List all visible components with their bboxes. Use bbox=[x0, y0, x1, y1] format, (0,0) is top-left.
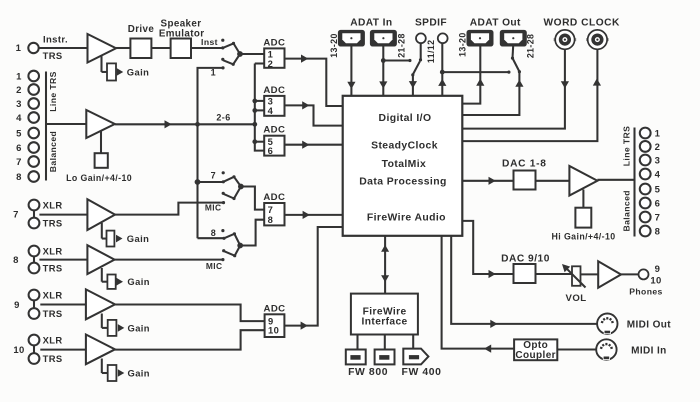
wire input 7 to amp bbox=[39, 214, 87, 216]
wire to FW400 port bbox=[412, 335, 414, 349]
input jacks XLR/TRS 8 bbox=[13, 245, 62, 273]
ADC 9/10 bbox=[264, 303, 286, 337]
gain pot 8 bbox=[102, 268, 150, 289]
svg-text:7: 7 bbox=[13, 210, 19, 221]
ADC 7/8 bbox=[263, 192, 285, 225]
svg-text:ADAT Out: ADAT Out bbox=[470, 18, 521, 29]
line TRS input jacks 1-8 bbox=[16, 71, 39, 183]
wire line-1 branch to bus bbox=[198, 68, 224, 124]
svg-text:Gain: Gain bbox=[127, 276, 149, 287]
wire SPDIF Out from DSP bbox=[438, 43, 446, 96]
pot VOL (volume fader) bbox=[562, 264, 586, 304]
svg-text:FW 800: FW 800 bbox=[348, 367, 388, 378]
svg-text:7: 7 bbox=[211, 170, 216, 180]
wire junction to switch 7 bbox=[198, 181, 224, 183]
ADC 3/4 bbox=[263, 85, 285, 116]
connector word clock BNC 1 bbox=[554, 30, 577, 49]
label 11/12 (SPDIF) bbox=[426, 40, 436, 64]
block Lo Gain reference bbox=[66, 131, 132, 183]
wire line inputs to amp bbox=[46, 123, 86, 125]
svg-text:5: 5 bbox=[16, 128, 22, 139]
svg-text:Data Processing: Data Processing bbox=[359, 177, 446, 188]
svg-text:21-28: 21-28 bbox=[526, 34, 536, 59]
svg-text:MIC: MIC bbox=[206, 261, 223, 271]
label DAC 1-8 bbox=[502, 159, 547, 170]
svg-text:7: 7 bbox=[655, 212, 661, 223]
svg-text:ADC: ADC bbox=[264, 303, 286, 314]
wire Opto Coupler to MIDI In jack bbox=[557, 348, 596, 350]
connector ADAT In 1 (TOSLINK) bbox=[339, 31, 364, 45]
svg-text:FireWire Audio: FireWire Audio bbox=[367, 212, 446, 223]
block Opto Coupler bbox=[514, 339, 557, 361]
svg-text:Instr.: Instr. bbox=[43, 35, 68, 46]
wire ADAT In 2 branch to SPDIF switch bbox=[383, 59, 411, 62]
wire switch 8 to ADC 8 bbox=[240, 220, 264, 246]
wire vertical ADC input bus 2-6 bbox=[255, 64, 264, 151]
connector FW 800 port 2 bbox=[375, 350, 395, 365]
jack Phones bbox=[639, 269, 649, 279]
svg-text:Gain: Gain bbox=[128, 367, 150, 378]
svg-text:SteadyClock: SteadyClock bbox=[371, 141, 438, 152]
label Line TRS (right, vertical) bbox=[621, 126, 631, 166]
svg-text:TRS: TRS bbox=[43, 50, 63, 61]
svg-text:1: 1 bbox=[211, 68, 216, 78]
svg-text:8: 8 bbox=[16, 172, 22, 183]
svg-text:Hi Gain/+4/-10: Hi Gain/+4/-10 bbox=[552, 231, 616, 241]
wire instr to amp bbox=[39, 47, 88, 49]
svg-text:WORD CLOCK: WORD CLOCK bbox=[544, 18, 620, 29]
wire amp 8 to mic contact bbox=[115, 259, 223, 261]
block Drive bbox=[128, 24, 155, 58]
wire DSP to DAC 1-8 bbox=[462, 177, 513, 185]
label ADAT In bbox=[350, 18, 392, 29]
svg-text:MIDI Out: MIDI Out bbox=[627, 320, 672, 331]
svg-text:Line TRS: Line TRS bbox=[48, 71, 58, 111]
input jacks XLR/TRS 7 bbox=[13, 199, 62, 228]
connector MIDI Out DIN bbox=[597, 314, 617, 334]
wire VOL to phones amp bbox=[581, 273, 599, 275]
gain pot 7 bbox=[102, 223, 149, 247]
connector ADAT Out 1 (TOSLINK) bbox=[468, 31, 493, 45]
gain pot instrument bbox=[102, 56, 150, 81]
wire amp to Drive bbox=[116, 47, 130, 49]
svg-text:Gain: Gain bbox=[128, 322, 150, 333]
svg-text:8: 8 bbox=[211, 228, 216, 238]
svg-text:6: 6 bbox=[16, 143, 22, 154]
wire DSP to ADAT Out 1 bbox=[462, 45, 484, 103]
svg-text:9: 9 bbox=[14, 300, 20, 311]
wire SPDIF branch to ADAT Out 2 switch bbox=[442, 71, 510, 74]
switch mic 8 (line 8 / MIC) bbox=[206, 228, 243, 271]
wire word clock in to DSP bbox=[462, 49, 569, 128]
svg-text:5: 5 bbox=[655, 184, 661, 195]
label 21-28 (ADAT In 2) bbox=[396, 33, 406, 58]
svg-text:TRS: TRS bbox=[43, 353, 63, 364]
wire input 8 to amp bbox=[39, 259, 87, 261]
svg-text:Gain: Gain bbox=[127, 66, 149, 77]
svg-text:Drive: Drive bbox=[128, 24, 155, 35]
svg-text:FW 400: FW 400 bbox=[402, 367, 442, 378]
wire bus junction to ADC bus bbox=[198, 122, 258, 127]
svg-text:Phones: Phones bbox=[629, 286, 662, 296]
svg-text:11/12: 11/12 bbox=[426, 40, 436, 64]
svg-text:6: 6 bbox=[655, 198, 661, 209]
svg-text:3: 3 bbox=[16, 99, 22, 110]
wire Drive to Speaker Emulator bbox=[151, 47, 170, 49]
jack SPDIF Out bbox=[438, 33, 448, 43]
label MIDI Out bbox=[627, 320, 672, 331]
connector word clock BNC 2 bbox=[586, 30, 609, 49]
svg-text:XLR: XLR bbox=[43, 199, 63, 210]
svg-text:13-20: 13-20 bbox=[329, 33, 339, 58]
wire DSP to ADAT Out 2 switch bbox=[462, 72, 523, 115]
gain pot 10 bbox=[102, 359, 150, 382]
wire ADC 5/6 to DSP bbox=[285, 141, 343, 149]
op-amp mic preamp 10 bbox=[86, 335, 115, 365]
junction switch 7 bbox=[195, 179, 201, 185]
svg-text:9: 9 bbox=[655, 264, 661, 275]
op-amp phones driver bbox=[598, 261, 621, 287]
svg-text:8: 8 bbox=[655, 226, 661, 237]
wire line amp to bus with arrow bbox=[115, 112, 231, 128]
wire switch common to ADC 1 bbox=[240, 53, 264, 55]
input jack TRS 1 (Instrument) bbox=[16, 35, 68, 62]
svg-text:8: 8 bbox=[268, 214, 274, 225]
wire DSP to MIDI Out bbox=[451, 236, 597, 328]
svg-text:1: 1 bbox=[655, 128, 661, 139]
input jacks XLR/TRS 10 bbox=[13, 334, 62, 364]
block DAC 1-8 bbox=[514, 171, 536, 190]
label 13-20 (ADAT In 1) bbox=[329, 33, 339, 58]
svg-text:21-28: 21-28 bbox=[396, 33, 406, 58]
svg-text:XLR: XLR bbox=[43, 245, 63, 256]
line TRS output jacks 1-8 bbox=[640, 128, 661, 238]
svg-text:ADAT In: ADAT In bbox=[350, 18, 392, 29]
svg-text:10: 10 bbox=[650, 275, 661, 286]
svg-text:ADC: ADC bbox=[263, 192, 285, 203]
label phones 9/10 bbox=[629, 264, 662, 297]
wire input 9 to amp bbox=[40, 303, 86, 305]
svg-text:ADC: ADC bbox=[263, 37, 285, 48]
svg-text:7: 7 bbox=[16, 157, 22, 168]
svg-text:Balanced: Balanced bbox=[48, 131, 58, 172]
junction bus row 5 bbox=[252, 139, 264, 144]
wire Speaker Emulator to switch bbox=[191, 37, 223, 48]
svg-text:2: 2 bbox=[16, 85, 22, 96]
wire amp 7 to mic contact bbox=[115, 203, 223, 215]
label DAC 9/10 bbox=[501, 254, 550, 265]
wire DSP to DAC 9/10 bbox=[462, 221, 513, 278]
op-amp instrument preamp bbox=[88, 34, 117, 63]
wire phones amp to jack bbox=[621, 273, 639, 275]
switch channel 1 source select (Inst/Line 1) bbox=[211, 39, 243, 78]
label 13-20 (ADAT Out 1) bbox=[458, 32, 468, 57]
op-amp mic preamp 8 bbox=[87, 245, 114, 274]
svg-text:TotalMix: TotalMix bbox=[382, 159, 427, 170]
svg-text:Coupler: Coupler bbox=[515, 350, 556, 361]
switch SPDIF input select bbox=[411, 43, 422, 76]
svg-text:VOL: VOL bbox=[566, 293, 587, 304]
label Line TRS (left, vertical) bbox=[48, 71, 58, 111]
wire ADAT In 1 to DSP bbox=[347, 45, 355, 95]
label FW 800 bbox=[348, 367, 388, 378]
label FW 400 bbox=[402, 367, 442, 378]
svg-text:ADC: ADC bbox=[263, 85, 285, 96]
svg-text:Emulator: Emulator bbox=[159, 28, 205, 39]
svg-text:Digital I/O: Digital I/O bbox=[379, 113, 432, 124]
wire ADC 1/2 to DSP bbox=[285, 55, 343, 107]
svg-text:Interface: Interface bbox=[362, 317, 408, 328]
svg-text:MIDI In: MIDI In bbox=[631, 345, 667, 356]
connector ADAT Out 2 (TOSLINK) bbox=[501, 31, 526, 45]
op-amp line output driver bbox=[569, 166, 597, 196]
svg-text:13-20: 13-20 bbox=[458, 32, 468, 57]
connector ADAT In 2 (TOSLINK) bbox=[371, 31, 396, 45]
label 21-28 (ADAT Out 2) bbox=[526, 34, 536, 59]
svg-text:TRS: TRS bbox=[43, 262, 63, 273]
switch ADAT Out 2 select bbox=[511, 45, 521, 73]
gain pot 9 bbox=[102, 314, 150, 336]
svg-text:Inst: Inst bbox=[201, 37, 218, 47]
wire amp 9 to ADC 9 bbox=[115, 305, 265, 322]
switch mic 7 (line 7 / MIC) bbox=[205, 170, 244, 212]
wire bus down to mic switches bbox=[196, 124, 198, 238]
svg-text:2: 2 bbox=[268, 58, 274, 69]
wire bus corner to switch 8 bbox=[198, 237, 225, 239]
label Balanced (left, vertical) bbox=[48, 131, 58, 172]
svg-text:TRS: TRS bbox=[43, 217, 63, 228]
svg-text:4: 4 bbox=[16, 113, 22, 124]
wire amp 10 to ADC 10 bbox=[115, 330, 265, 349]
wire switch 7 to ADC 7 bbox=[241, 187, 264, 210]
label ADAT Out bbox=[470, 18, 521, 29]
wire DSP to FireWire Interface bbox=[381, 236, 389, 294]
svg-text:4: 4 bbox=[655, 169, 661, 180]
svg-text:Balanced: Balanced bbox=[621, 190, 631, 231]
wire DAC 9/10 to VOL bbox=[536, 273, 573, 275]
input jacks XLR/TRS 9 bbox=[14, 289, 62, 319]
block DAC 9/10 bbox=[514, 264, 536, 283]
wire ADC 3/4 to DSP bbox=[285, 101, 343, 125]
svg-text:XLR: XLR bbox=[43, 334, 63, 345]
block DSP Digital I/O SteadyClock TotalMix bbox=[343, 96, 463, 236]
connector FW 800 port 1 bbox=[346, 350, 366, 365]
svg-text:Gain: Gain bbox=[127, 233, 149, 244]
op-amp line 1-8 preamp bbox=[86, 110, 115, 138]
junction bus bbox=[195, 122, 200, 127]
jack SPDIF In bbox=[416, 33, 426, 43]
block FireWire Interface bbox=[351, 294, 418, 335]
wire line amp to output bracket bbox=[597, 179, 634, 181]
svg-text:Line TRS: Line TRS bbox=[621, 126, 631, 166]
junction bus row 3 bbox=[252, 99, 264, 104]
svg-text:DAC 1-8: DAC 1-8 bbox=[502, 159, 547, 170]
svg-text:8: 8 bbox=[13, 255, 19, 266]
wire SPDIF In switch to DSP bbox=[409, 75, 417, 96]
svg-text:MIC: MIC bbox=[205, 202, 222, 212]
wire ADC 9/10 to DSP bbox=[284, 227, 342, 330]
label SPDIF bbox=[415, 18, 447, 29]
svg-text:Lo Gain/+4/-10: Lo Gain/+4/-10 bbox=[66, 173, 132, 183]
wire MIDI In to DSP bbox=[442, 236, 514, 353]
bracket line TRS outputs bbox=[633, 128, 635, 237]
wire ADAT In 2 to DSP bbox=[379, 45, 387, 95]
svg-text:2-6: 2-6 bbox=[216, 112, 230, 122]
wire input 10 to amp bbox=[40, 349, 86, 351]
label Balanced (right, vertical) bbox=[621, 190, 631, 231]
ADC 5/6 bbox=[263, 125, 285, 156]
svg-text:2: 2 bbox=[655, 142, 661, 153]
svg-text:4: 4 bbox=[268, 105, 274, 116]
label MIDI In bbox=[631, 345, 667, 356]
connector MIDI In DIN bbox=[596, 339, 616, 359]
wire DAC to line amp bbox=[536, 180, 570, 182]
op-amp mic preamp 7 bbox=[87, 199, 115, 230]
wire to FW800 port 1 bbox=[356, 335, 358, 350]
connector FW 400 port bbox=[403, 349, 428, 365]
wire ADC 7/8 to DSP bbox=[285, 211, 343, 219]
bracket line TRS inputs bbox=[45, 72, 47, 181]
wire DSP to word clock out bbox=[462, 49, 601, 141]
svg-text:XLR: XLR bbox=[43, 289, 63, 300]
svg-text:1: 1 bbox=[16, 43, 22, 54]
block Hi Gain reference bbox=[552, 190, 616, 242]
svg-text:1: 1 bbox=[16, 71, 22, 82]
svg-text:3: 3 bbox=[655, 155, 661, 166]
svg-text:TRS: TRS bbox=[43, 308, 63, 319]
ADC 1/2 bbox=[263, 37, 285, 69]
op-amp mic preamp 9 bbox=[86, 289, 115, 319]
svg-text:10: 10 bbox=[13, 345, 24, 356]
svg-text:6: 6 bbox=[268, 145, 274, 156]
svg-text:10: 10 bbox=[268, 325, 279, 336]
svg-text:DAC 9/10: DAC 9/10 bbox=[501, 254, 550, 265]
wire to FW800 port 2 bbox=[384, 335, 386, 350]
junction bus row 4 bbox=[252, 108, 264, 113]
block Speaker Emulator bbox=[159, 19, 205, 59]
svg-text:ADC: ADC bbox=[263, 125, 285, 136]
svg-text:SPDIF: SPDIF bbox=[415, 18, 447, 29]
label WORD CLOCK bbox=[544, 18, 620, 29]
